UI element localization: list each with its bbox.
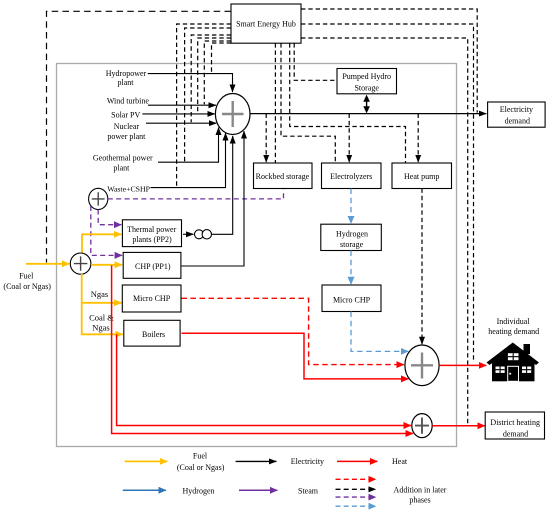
wire hub to electricity demand line [301, 9, 477, 113]
svg-text:Addition in later: Addition in later [394, 485, 447, 494]
wire individual junction to house [439, 364, 486, 366]
heat pump box [392, 163, 452, 189]
svg-text:(Coal or Ngas): (Coal or Ngas) [3, 282, 51, 291]
svg-text:Micro CHP: Micro CHP [133, 294, 171, 303]
chp pp1 box [123, 252, 181, 278]
wire hydropower to electricity bus [148, 74, 233, 92]
wire boilers heat to individual junction [182, 333, 409, 379]
svg-text:Solar PV: Solar PV [111, 111, 140, 120]
legend addition purple dashed arrow [336, 496, 376, 498]
legend addition blue dashed arrow [336, 505, 376, 507]
wire electricity bus to electrolyzers [348, 114, 350, 163]
wire steam to thermal power plants [98, 210, 121, 225]
svg-text:CHP (PP1): CHP (PP1) [135, 262, 171, 271]
house icon [487, 343, 540, 382]
junction individual heating plus circle [405, 345, 439, 386]
thermal power plants pp2 box [122, 220, 181, 247]
node individual heating demand label [488, 317, 539, 336]
svg-text:demand: demand [505, 117, 530, 126]
svg-text:Fuel: Fuel [19, 272, 34, 281]
legend addition label [394, 485, 447, 504]
svg-text:Heat pump: Heat pump [404, 172, 439, 181]
wire wind to electricity bus [148, 104, 216, 106]
micro chp box [122, 285, 181, 312]
legend addition black dashed arrow [336, 488, 376, 490]
wire chp heat to district junction [112, 265, 413, 433]
svg-text:heating demand: heating demand [488, 327, 539, 336]
wire fuel input [26, 263, 69, 265]
wire hub to hydro line [212, 43, 232, 73]
legend fuel label [177, 452, 225, 472]
district heating demand box [485, 412, 544, 439]
node fuel label [3, 272, 51, 291]
legend fuel arrow [125, 460, 168, 462]
wire hub to wind line [204, 41, 231, 104]
svg-text:Pumped Hydro: Pumped Hydro [342, 72, 391, 81]
wire hub to rockbed storage [274, 43, 276, 162]
legend addition red dashed arrow [336, 478, 376, 480]
rockbed storage box [254, 163, 313, 189]
transformer T1 [183, 230, 212, 239]
wire chp pp1 to electricity bus [182, 131, 245, 266]
svg-text:Electricity: Electricity [500, 105, 533, 114]
wire electricity bus to rockbed storage [265, 114, 267, 163]
wire hub to nuclear line [191, 35, 231, 122]
svg-text:Hydropower: Hydropower [106, 69, 147, 78]
wire steam to chp pp1 [91, 206, 122, 255]
svg-text:Individual: Individual [497, 317, 531, 326]
wire nuclear to electricity bus [146, 122, 216, 124]
wire transformer to electricity bus [212, 136, 233, 234]
svg-text:Electrolyzers: Electrolyzers [330, 172, 372, 181]
electrolyzers box [322, 163, 382, 189]
node coal and ngas label [89, 312, 114, 332]
wire electricity bus main line to demand [250, 113, 486, 115]
hydrogen storage box [321, 224, 382, 250]
wire electricity bus to heat pump [417, 114, 419, 163]
junction fuel plus circle [70, 253, 91, 274]
svg-text:Geothermal power: Geothermal power [93, 153, 153, 162]
svg-text:Thermal power: Thermal power [127, 225, 176, 234]
svg-text:Ngas: Ngas [91, 289, 108, 299]
wire micro chp heat to individual junction (red dashed) [182, 298, 405, 364]
svg-text:Boilers: Boilers [142, 330, 165, 339]
wire steam to rockbed storage [108, 190, 284, 199]
wire boilers heat to district junction [117, 334, 411, 425]
svg-text:phases: phases [409, 495, 430, 504]
legend heat arrow [337, 460, 377, 462]
wire hub to individual heat line [301, 24, 474, 362]
wire hub to solar line [198, 38, 231, 113]
wire hub to geothermal line [185, 28, 231, 161]
svg-text:Nuclear: Nuclear [114, 122, 140, 131]
wire pumped hydro to electricity bus double arrow [363, 95, 370, 114]
svg-text:plant: plant [118, 78, 135, 87]
svg-text:Storage: Storage [354, 83, 379, 92]
wire hub-control to fuel input (outer dashed border) [47, 11, 232, 262]
svg-text:District heating: District heating [490, 418, 540, 427]
wire heat pump to individual junction [421, 189, 423, 345]
svg-text:plants (PP2): plants (PP2) [132, 235, 172, 244]
wire waste to electricity bus [151, 133, 226, 188]
wire hub to waste line [177, 24, 231, 187]
svg-text:Smart Energy Hub: Smart Energy Hub [236, 19, 296, 28]
svg-text:storage: storage [340, 240, 364, 249]
wire hub to pumped hydro storage [294, 43, 336, 80]
wire electrolyzers to hydrogen storage [350, 189, 352, 224]
wire hub to district heat line [301, 38, 468, 425]
inner system boundary rectangle [57, 64, 457, 447]
svg-text:Ngas: Ngas [92, 322, 109, 332]
junction waste+cshp steam plus circle [89, 188, 108, 209]
micro chp hydrogen box [322, 285, 381, 312]
svg-text:Heat: Heat [392, 457, 408, 466]
svg-text:Hydrogen: Hydrogen [336, 229, 368, 238]
junction district heating plus circle [412, 414, 432, 438]
wire fuel to thermal power plants [82, 234, 121, 252]
wire fuel trunk to boilers [82, 274, 123, 335]
wire geothermal to electricity bus [158, 128, 219, 163]
svg-text:Electricity: Electricity [291, 457, 324, 466]
wire district junction to demand box [432, 425, 485, 427]
legend hydrogen arrow [123, 489, 166, 491]
svg-text:Micro CHP: Micro CHP [333, 296, 371, 305]
svg-text:power plant: power plant [107, 132, 146, 141]
pumped hydro storage box [337, 69, 397, 94]
electricity demand box [488, 102, 545, 127]
svg-text:Fuel: Fuel [193, 452, 208, 461]
svg-text:Steam: Steam [298, 486, 319, 495]
wire hub to electrolyzers [281, 43, 335, 162]
svg-text:Rockbed storage: Rockbed storage [256, 172, 310, 181]
wire solar to electricity bus [142, 113, 214, 115]
node nuclear plant label [107, 122, 146, 141]
wire fuel to chp pp1 [91, 264, 122, 266]
svg-text:Coal &: Coal & [89, 312, 114, 322]
svg-text:Waste+CSHP: Waste+CSHP [107, 184, 150, 193]
node hydropower plant label [106, 69, 147, 87]
svg-text:plant: plant [113, 163, 130, 172]
wire fuel ngas to micro chp [82, 302, 122, 304]
svg-text:Wind turbine: Wind turbine [107, 96, 150, 105]
legend electricity arrow [236, 460, 277, 462]
wire hub to heat pump [290, 43, 406, 163]
svg-text:demand: demand [503, 429, 528, 438]
svg-text:Hydrogen: Hydrogen [183, 486, 215, 495]
junction electricity bus plus circle [215, 94, 250, 135]
wire hydrogen storage to micro chp [350, 251, 352, 285]
wire micro chp hydrogen to individual heat junction [351, 312, 408, 352]
boilers box [124, 320, 180, 346]
legend steam arrow [239, 489, 277, 491]
node geothermal plant label [93, 153, 153, 172]
smart energy hub box [231, 4, 301, 43]
svg-text:(Coal or Ngas): (Coal or Ngas) [177, 463, 225, 472]
